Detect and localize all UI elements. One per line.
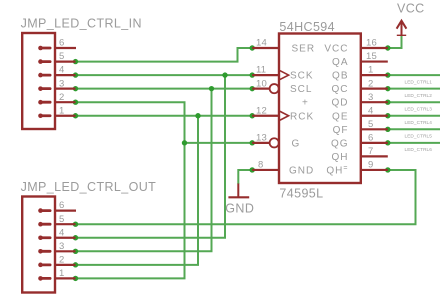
svg-text:G: G: [292, 138, 301, 149]
svg-text:QF: QF: [333, 125, 349, 136]
svg-text:3: 3: [59, 78, 64, 89]
svg-text:4: 4: [368, 105, 373, 116]
svg-text:2: 2: [59, 92, 64, 103]
svg-text:15: 15: [366, 51, 377, 62]
svg-text:3: 3: [368, 92, 373, 103]
svg-text:13: 13: [256, 133, 267, 144]
svg-text:RCK: RCK: [290, 111, 314, 122]
svg-text:14: 14: [256, 38, 267, 49]
svg-text:2: 2: [59, 254, 64, 265]
svg-text:1: 1: [368, 65, 373, 76]
svg-text:JMP_LED_CTRL_IN: JMP_LED_CTRL_IN: [21, 17, 142, 31]
svg-text:4: 4: [59, 227, 64, 238]
svg-text:LED_CTRL5: LED_CTRL5: [405, 134, 433, 139]
svg-text:VCC: VCC: [397, 1, 425, 15]
svg-text:LED_CTRL4: LED_CTRL4: [405, 120, 433, 125]
svg-text:4: 4: [59, 65, 64, 76]
svg-text:SCK: SCK: [290, 71, 314, 82]
svg-text:2: 2: [368, 78, 373, 89]
svg-text:QB: QB: [332, 71, 348, 82]
svg-text:QH: QH: [332, 152, 349, 163]
svg-text:6: 6: [59, 200, 64, 211]
svg-text:16: 16: [366, 38, 377, 49]
svg-text:6: 6: [368, 133, 373, 144]
svg-text:LED_CTRL1: LED_CTRL1: [405, 79, 433, 84]
svg-text:SCL: SCL: [290, 84, 312, 95]
svg-text:QG: QG: [331, 138, 349, 149]
svg-text:7: 7: [368, 146, 373, 157]
svg-text:VCC: VCC: [324, 44, 348, 55]
svg-text:1: 1: [59, 105, 64, 116]
svg-text:10: 10: [256, 78, 267, 89]
svg-text:LED_CTRL2: LED_CTRL2: [405, 93, 433, 98]
svg-text:GND: GND: [225, 201, 254, 215]
svg-text:QC: QC: [332, 84, 349, 95]
svg-text:1: 1: [59, 268, 64, 279]
svg-text:74595L: 74595L: [279, 186, 323, 200]
svg-text:GND: GND: [289, 166, 314, 177]
svg-text:3: 3: [59, 241, 64, 252]
svg-text:5: 5: [368, 119, 373, 130]
svg-text:SER: SER: [292, 44, 316, 55]
svg-text:QE: QE: [332, 111, 348, 122]
svg-text:QA: QA: [332, 57, 348, 68]
svg-text:11: 11: [256, 65, 266, 76]
svg-text:9: 9: [368, 160, 373, 171]
svg-text:6: 6: [59, 38, 64, 49]
svg-text:54HC594: 54HC594: [279, 20, 335, 34]
svg-text:LED_CTRL6: LED_CTRL6: [405, 147, 433, 152]
svg-text:5: 5: [59, 214, 64, 225]
svg-text:LED_CTRL3: LED_CTRL3: [405, 106, 433, 111]
svg-text:QD: QD: [332, 98, 349, 109]
svg-text:JMP_LED_CTRL_OUT: JMP_LED_CTRL_OUT: [21, 180, 157, 194]
svg-text:12: 12: [256, 105, 267, 116]
svg-text:5: 5: [59, 51, 64, 62]
svg-text:8: 8: [258, 160, 263, 171]
svg-text:+: +: [302, 98, 308, 109]
